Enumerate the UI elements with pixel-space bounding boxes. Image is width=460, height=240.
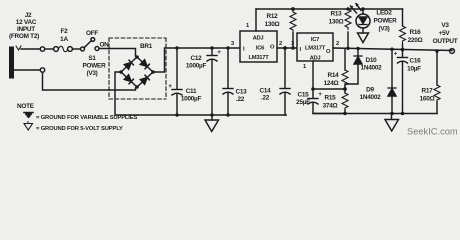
capacitor C13 .22	[223, 48, 247, 115]
svg-text:ADJ: ADJ	[310, 56, 321, 62]
diode bridge lower-left	[124, 75, 133, 84]
svg-text:R16: R16	[410, 29, 422, 36]
svg-text:O: O	[270, 45, 275, 51]
svg-text:12 VAC: 12 VAC	[16, 19, 37, 26]
LED2 POWER (V3)	[350, 3, 397, 33]
svg-text:S1: S1	[88, 55, 96, 62]
ground (5-volt) under C12	[205, 115, 219, 132]
svg-text:(V3): (V3)	[86, 70, 97, 77]
node	[311, 87, 315, 91]
svg-text:2: 2	[279, 41, 282, 47]
bridge diamond wires	[121, 57, 153, 87]
svg-text:IC7: IC7	[311, 37, 319, 43]
svg-text:2: 2	[336, 41, 339, 47]
resistor R17 160ohm	[420, 51, 440, 114]
svg-text:C16: C16	[410, 58, 422, 65]
svg-text:R14: R14	[328, 72, 340, 79]
svg-text:= GROUND FOR VARIABLE SUPPLIES: = GROUND FOR VARIABLE SUPPLIES	[36, 115, 137, 121]
svg-text:+5V: +5V	[439, 30, 451, 37]
svg-text:C15: C15	[298, 92, 310, 99]
svg-text:124Ω: 124Ω	[324, 80, 339, 87]
svg-text:F2: F2	[61, 28, 69, 35]
node	[226, 46, 229, 49]
svg-text:POWER: POWER	[374, 18, 398, 25]
fuse F2 1A	[54, 28, 73, 52]
svg-text:C12: C12	[191, 55, 203, 62]
svg-text:ADJ: ADJ	[253, 36, 264, 42]
svg-text:C14: C14	[260, 88, 272, 95]
wire fuse to switch	[72, 48, 80, 50]
node	[343, 112, 346, 115]
bridge rectifier BR1 dashed box	[109, 38, 166, 99]
ground (5-volt) under rail	[385, 114, 399, 132]
node	[356, 47, 359, 50]
wire switch to bridge top corner	[99, 49, 136, 57]
diode D10 1N4002	[345, 49, 382, 90]
svg-text:(V3): (V3)	[378, 26, 389, 33]
svg-text:+: +	[217, 49, 221, 56]
node	[401, 48, 405, 52]
svg-text:25µF: 25µF	[296, 99, 310, 106]
svg-text:C11: C11	[186, 88, 197, 95]
svg-text:.22: .22	[236, 96, 245, 103]
capacitor C11 1000uF	[168, 48, 201, 115]
capacitor C14 .22	[260, 48, 290, 115]
svg-text:1A: 1A	[60, 36, 68, 43]
svg-text:10µF: 10µF	[407, 66, 421, 73]
wire J2 top to fuse	[45, 48, 54, 50]
resistor R13 130ohm	[329, 9, 351, 48]
wire 5V ground rail	[313, 113, 437, 115]
svg-text:R17: R17	[422, 88, 434, 95]
svg-text:POWER: POWER	[83, 63, 107, 70]
node	[283, 46, 287, 50]
note	[17, 103, 137, 132]
svg-text:1N4002: 1N4002	[360, 94, 382, 101]
resistor R16 220ohm	[400, 9, 423, 50]
diode bridge upper-right	[140, 60, 149, 69]
capacitor C12 1000uF	[186, 48, 221, 115]
node	[346, 7, 349, 10]
regulator IC6 LM317T	[231, 23, 277, 62]
svg-text:160Ω: 160Ω	[420, 96, 435, 103]
wire IC6 ADJ up to top rail	[255, 9, 257, 31]
wire IC6 out to IC7 in	[277, 47, 297, 49]
svg-text:IC6: IC6	[256, 46, 265, 52]
svg-text:NOTE: NOTE	[17, 103, 35, 110]
svg-text:(FROM T2): (FROM T2)	[9, 33, 39, 40]
resistor R12 130ohm	[265, 9, 296, 48]
svg-text:OFF: OFF	[86, 30, 98, 37]
switch S1	[81, 30, 110, 77]
svg-text:.22: .22	[261, 95, 270, 102]
node	[291, 7, 295, 11]
output terminal V3 +5V	[433, 22, 458, 53]
svg-text:D9: D9	[366, 87, 374, 94]
diode bridge upper-left	[124, 60, 133, 69]
wire IC7 out rail	[333, 48, 452, 51]
resistor R14 124ohm	[324, 48, 348, 87]
wire bridge - output down to ground rail	[115, 72, 286, 115]
capacitor C15 25uF	[296, 89, 345, 114]
svg-text:V3: V3	[441, 22, 449, 29]
svg-text:R13: R13	[331, 11, 343, 18]
svg-text:BR1: BR1	[140, 43, 153, 50]
svg-text:220Ω: 220Ω	[408, 37, 423, 44]
svg-text:D10: D10	[366, 57, 378, 64]
node	[390, 48, 393, 51]
capacitor C16 10uF	[394, 50, 421, 114]
svg-text:+: +	[318, 91, 322, 98]
node	[435, 49, 439, 53]
svg-text:LM317T: LM317T	[248, 55, 269, 61]
wire bridge + output to main rail	[153, 48, 240, 72]
diode D9 1N4002	[360, 49, 396, 113]
node	[175, 46, 178, 49]
svg-text:C13: C13	[236, 89, 248, 96]
svg-text:130Ω: 130Ω	[265, 21, 280, 28]
svg-text:1N4002: 1N4002	[361, 65, 383, 72]
svg-text:1000µF: 1000µF	[181, 96, 202, 103]
svg-text:374Ω: 374Ω	[323, 103, 338, 110]
svg-text:1000µF: 1000µF	[186, 63, 207, 70]
connector J2	[9, 12, 45, 79]
svg-text:INPUT: INPUT	[17, 26, 35, 33]
node	[210, 46, 213, 49]
node	[361, 7, 364, 10]
wire top rail	[256, 8, 403, 10]
diode bridge lower-right	[140, 75, 149, 84]
svg-text:130Ω: 130Ω	[329, 19, 344, 26]
svg-text:LM317T: LM317T	[305, 46, 326, 52]
svg-text:+: +	[394, 51, 398, 58]
svg-text:ON: ON	[99, 42, 109, 49]
svg-text:J2: J2	[25, 12, 32, 19]
svg-text:OUTPUT: OUTPUT	[433, 38, 458, 45]
svg-text:R15: R15	[325, 95, 337, 102]
svg-text:LED2: LED2	[376, 10, 392, 17]
svg-text:SeekIC.com: SeekIC.com	[407, 127, 458, 137]
svg-text:= GROUND FOR 5-VOLT SUPPLY: = GROUND FOR 5-VOLT SUPPLY	[36, 126, 123, 132]
ground (5-volt) under LED2	[358, 28, 369, 43]
regulator IC7 LM317T	[297, 33, 339, 70]
wire J2 bottom to bridge bottom corner	[43, 72, 136, 90]
svg-text:+: +	[168, 83, 172, 90]
svg-text:R12: R12	[267, 13, 279, 20]
svg-text:O: O	[326, 49, 331, 55]
resistor R15 374ohm	[323, 89, 348, 114]
wire IC7 ADJ down	[312, 61, 314, 89]
wire ADJ node	[313, 88, 345, 90]
node	[401, 112, 404, 115]
node bridge corners	[119, 55, 155, 89]
